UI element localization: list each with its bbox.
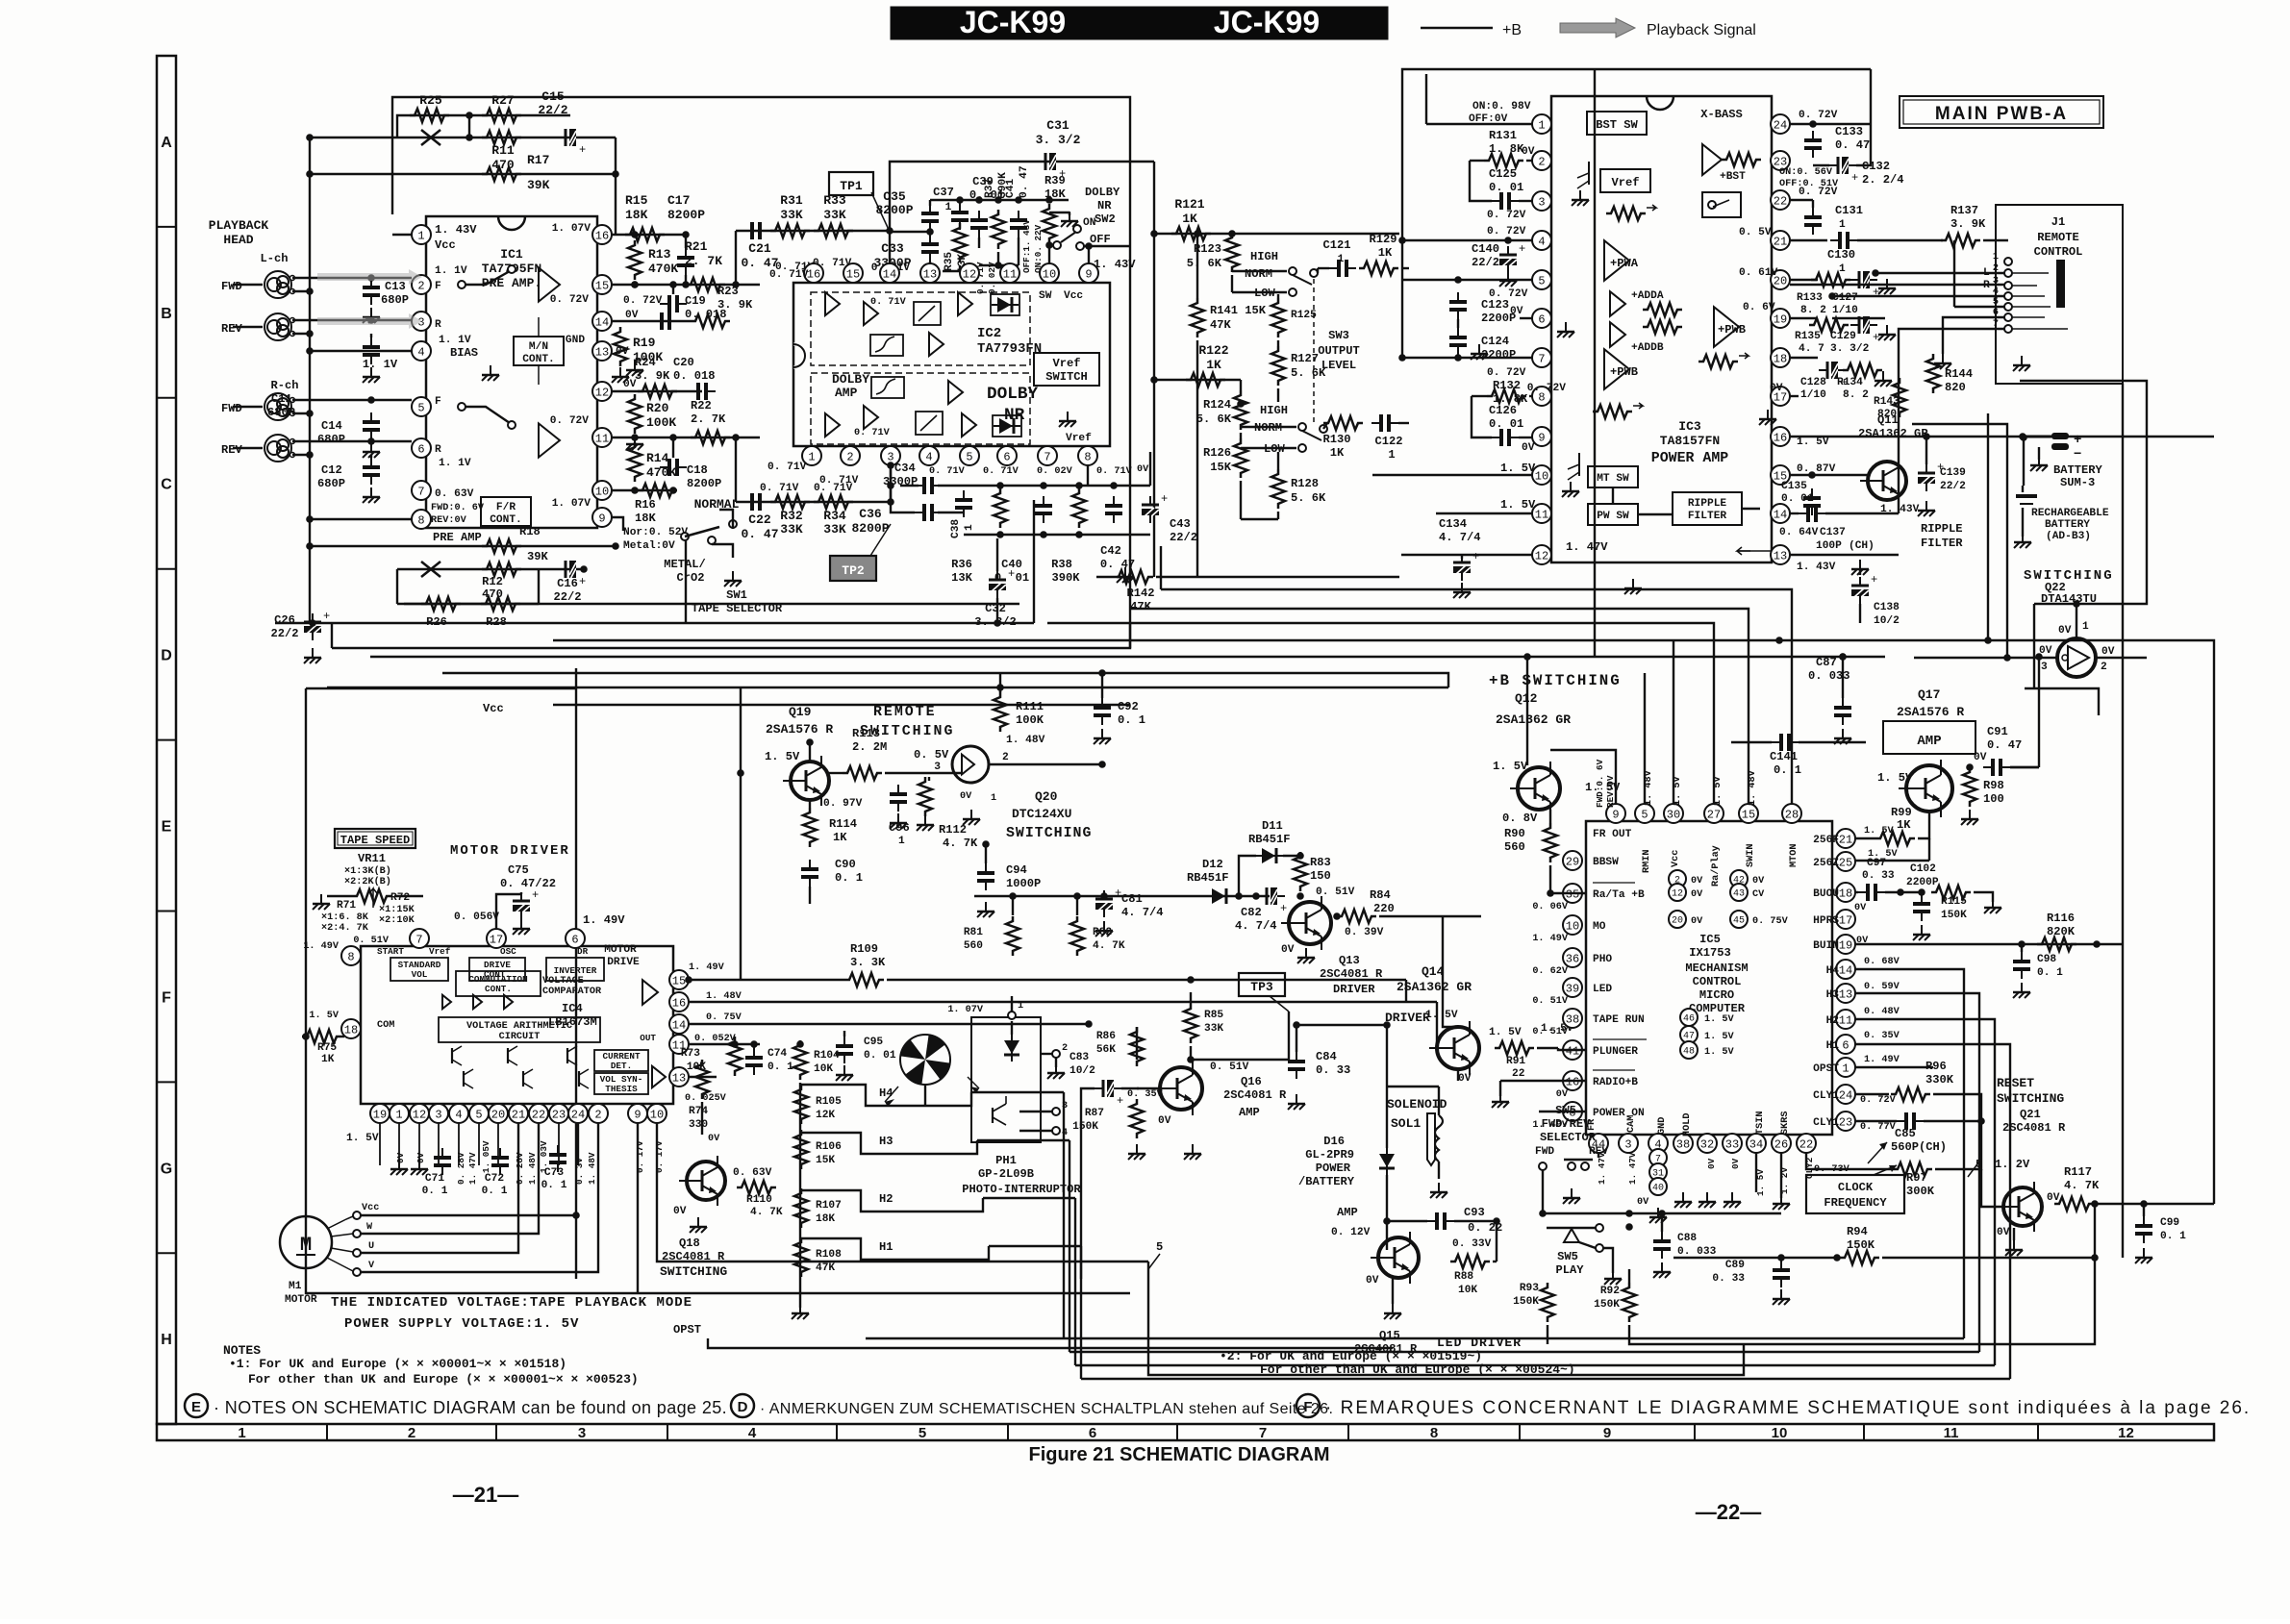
svg-text:1: 1 — [1388, 448, 1395, 462]
svg-text:B: B — [161, 306, 172, 322]
pin 3 IC2 bottom — [881, 446, 900, 465]
svg-text:11: 11 — [1003, 267, 1017, 281]
capacitor C88 0.033 — [1653, 1210, 1717, 1278]
wire c87 bus — [1839, 653, 1847, 661]
pin 2 IC2 bottom — [841, 446, 860, 465]
variable resistor VR11 — [327, 888, 423, 908]
capacitor C74 0.1 — [745, 1040, 793, 1075]
svg-text:R37: R37 — [984, 179, 995, 198]
capacitor C91 0.47 — [1983, 725, 2039, 776]
resistor R81 560 vert — [964, 892, 1019, 956]
svg-text:20: 20 — [1672, 916, 1683, 927]
svg-text:GL-2PR9: GL-2PR9 — [1305, 1148, 1354, 1162]
wire d11 right — [1299, 852, 1301, 856]
label volt 35 — [1532, 902, 1569, 912]
svg-text:+: + — [579, 575, 586, 588]
label 0V q21 — [1997, 1227, 2023, 1256]
svg-text:0. 33: 0. 33 — [1862, 870, 1895, 882]
svg-text:C127: C127 — [1832, 292, 1858, 304]
svg-text:1. 48V: 1. 48V — [527, 1152, 538, 1185]
frame row letter E — [162, 819, 172, 836]
ground ic2 — [1059, 412, 1076, 427]
svg-text:1. 8K: 1. 8K — [1489, 142, 1524, 156]
pin 18 IC4 — [309, 1011, 361, 1038]
svg-text:CIRCUIT: CIRCUIT — [499, 1032, 541, 1042]
wire p12 row — [612, 390, 702, 392]
svg-text:R73: R73 — [681, 1048, 700, 1060]
svg-text:CrO2: CrO2 — [676, 571, 704, 585]
frame col number 12 — [2118, 1425, 2134, 1441]
wire j1 link3 — [1832, 317, 1885, 319]
svg-text:C88: C88 — [1677, 1233, 1697, 1244]
svg-text:0. 01: 0. 01 — [1489, 417, 1523, 431]
wire ic5 top riser 30 — [1673, 640, 1674, 804]
capacitor C42 0.47 vert — [1100, 496, 1135, 571]
svg-text:0V: 0V — [673, 1206, 687, 1217]
svg-text:R13: R13 — [648, 247, 671, 262]
op-amp IC1 box — [426, 216, 597, 528]
svg-text:0. 64V: 0. 64V — [1779, 527, 1819, 538]
wire j1 gnd — [1934, 317, 2004, 369]
label START Vref OSC DR — [377, 946, 589, 957]
svg-text:H4: H4 — [1826, 965, 1840, 977]
svg-text:150K: 150K — [1513, 1296, 1539, 1308]
svg-text:0. 5V: 0. 5V — [1739, 227, 1772, 238]
resistor fb2 — [1699, 353, 1749, 368]
IC2 box — [793, 283, 1110, 446]
capacitor C31 3.3/2 — [1036, 118, 1081, 181]
svg-text:R106: R106 — [816, 1141, 842, 1153]
svg-text:0V: 0V — [395, 1152, 406, 1163]
svg-text:0. 71V: 0. 71V — [769, 269, 809, 281]
svg-text:8200P: 8200P — [851, 521, 889, 536]
svg-text:0. 48V: 0. 48V — [1864, 1007, 1900, 1017]
svg-text:100: 100 — [1983, 792, 2004, 806]
svg-text:JC-K99: JC-K99 — [1214, 5, 1320, 39]
svg-text:1. 5V: 1. 5V — [1704, 1032, 1734, 1042]
label NOTES — [223, 1343, 261, 1358]
svg-text:33K: 33K — [823, 208, 846, 222]
circle D note — [731, 1394, 754, 1417]
svg-text:F: F — [435, 396, 441, 408]
pin 38 IC5 bottom — [1673, 1134, 1693, 1153]
rechargeable battery sym — [2014, 486, 2037, 548]
svg-text:0V: 0V — [1706, 1158, 1717, 1169]
diode D12 RB451F — [1187, 858, 1233, 904]
svg-text:0. 72V: 0. 72V — [623, 295, 663, 307]
svg-text:1. 2V: 1. 2V — [1995, 1158, 2030, 1171]
svg-text:0. 61V: 0. 61V — [1739, 267, 1778, 279]
svg-text:3. 9K: 3. 9K — [1950, 217, 1986, 231]
svg-text:CLOCK: CLOCK — [1838, 1181, 1874, 1194]
capacitor C14 680P — [317, 396, 380, 458]
frame row tick — [157, 911, 176, 912]
svg-text:12: 12 — [2118, 1425, 2134, 1441]
svg-text:9: 9 — [634, 1108, 641, 1121]
svg-text:20: 20 — [491, 1108, 505, 1121]
capacitor C134 4.7/4 — [1439, 517, 1481, 598]
svg-text:For other than UK and Europe (: For other than UK and Europe (× × ×00001… — [248, 1372, 639, 1387]
wire p1 lead — [1426, 74, 1532, 124]
svg-text:150K: 150K — [1847, 1238, 1875, 1252]
label 0.5V p21 — [1739, 227, 1827, 240]
wire motor box — [306, 688, 1130, 1293]
wire ic4 out net — [689, 1044, 760, 1077]
wire q14 down — [1457, 1069, 1459, 1081]
capacitor C39 0.01 — [969, 175, 1004, 248]
wire sw3a net — [0, 0, 1, 1]
resistor R33 33K — [814, 193, 853, 237]
op-amp d1 — [825, 292, 878, 325]
wire long h4 return — [971, 1091, 1064, 1093]
svg-text:C73: C73 — [544, 1167, 564, 1179]
svg-text:6: 6 — [1003, 450, 1010, 463]
wire q12 net — [1523, 653, 1531, 765]
capacitor C26 22/2 — [270, 610, 330, 663]
svg-text:MTON: MTON — [1789, 844, 1799, 867]
svg-text:BATTERY: BATTERY — [2045, 519, 2090, 531]
svg-text:0. 73V: 0. 73V — [1814, 1164, 1850, 1175]
J1 pin 6 — [1993, 308, 2012, 321]
wire right bus b — [1855, 860, 1929, 862]
svg-text:R141 15K: R141 15K — [1210, 304, 1267, 317]
label Q13 name — [1320, 954, 1383, 996]
svg-text:SUM-3: SUM-3 — [2060, 476, 2095, 489]
svg-text:10K: 10K — [1458, 1285, 1477, 1296]
svg-text:Ra/Ta +B: Ra/Ta +B — [1593, 889, 1645, 901]
wire preamp outer box top — [392, 97, 1130, 623]
svg-text:7: 7 — [415, 933, 422, 946]
resistor R116 820K — [2037, 912, 2076, 951]
svg-text:C82: C82 — [1241, 906, 1262, 919]
pin 15 IC3 right — [1771, 465, 1790, 485]
pin 39 IC5 left — [1563, 978, 1612, 997]
node R27-R11 — [466, 112, 473, 141]
label 0.61V p20 — [1739, 267, 1818, 280]
svg-text:1: 1 — [1538, 118, 1545, 132]
svg-text:1: 1 — [808, 450, 815, 463]
pin 14 IC2 top — [880, 263, 899, 283]
label 1.5V ic4 — [346, 1133, 379, 1144]
svg-text:15: 15 — [672, 974, 686, 987]
svg-text:1: 1 — [898, 836, 905, 847]
node R17 right — [612, 170, 619, 178]
svg-text:R92: R92 — [1600, 1286, 1620, 1297]
svg-text:0V: 0V — [1458, 1073, 1472, 1085]
op-amp IC4 out — [642, 980, 658, 1005]
label X-BASS — [1700, 108, 1743, 121]
svg-text:PLUNGER: PLUNGER — [1593, 1046, 1638, 1058]
svg-text:C15: C15 — [541, 89, 565, 104]
capacitor C13 680P — [363, 274, 409, 323]
svg-text:JC-K99: JC-K99 — [960, 5, 1066, 39]
svg-text:HPRS: HPRS — [1813, 915, 1839, 927]
svg-text:TP1: TP1 — [840, 179, 863, 193]
resistor R113 2.2M — [829, 727, 962, 780]
label volt 16 — [1556, 1089, 1569, 1100]
svg-text:Vcc: Vcc — [435, 238, 456, 252]
svg-text:0V: 0V — [2058, 625, 2072, 637]
label 0.71V a — [775, 258, 852, 273]
frame col tick — [1176, 1424, 1178, 1440]
vlabel 0.71V 0.02V — [975, 262, 997, 294]
wire r113 junctions — [737, 769, 744, 777]
label Q20 DTC124XU — [1006, 789, 1092, 841]
pin 23 IC4 bottom — [549, 1104, 568, 1123]
svg-text:R38: R38 — [1051, 558, 1072, 571]
svg-text:C84: C84 — [1316, 1050, 1337, 1063]
capacitor C36 8200P — [851, 482, 942, 536]
label 0V q14 — [1458, 1073, 1472, 1085]
svg-text:18K: 18K — [1044, 187, 1067, 201]
svg-text:+: + — [1161, 492, 1168, 506]
wire bus1 — [553, 413, 1988, 644]
svg-text:9: 9 — [598, 512, 605, 525]
wire j1 link4 — [1899, 329, 2004, 513]
svg-text:19: 19 — [1774, 312, 1787, 326]
pin 24 IC5 right — [1813, 1085, 1855, 1104]
wire long h3 return — [977, 1139, 1070, 1141]
label SOLENOID SOL1 — [1387, 1097, 1447, 1131]
wire q12 down — [1550, 892, 1586, 894]
svg-text:1. 5V: 1. 5V — [1500, 462, 1536, 475]
svg-text:5: 5 — [475, 1108, 482, 1121]
wire p4 lead — [1402, 237, 1532, 244]
label Vcc motor — [483, 702, 504, 715]
label R pin6 — [435, 444, 471, 469]
resistor R132 — [1472, 389, 1532, 403]
svg-text:W: W — [366, 1222, 373, 1233]
svg-text:38: 38 — [1566, 1012, 1579, 1026]
resistor R18 39K — [306, 525, 616, 563]
capacitor C87 0.033 — [1808, 653, 1851, 744]
svg-text:Q11: Q11 — [1877, 413, 1899, 427]
pin 10 IC1 right — [592, 481, 612, 500]
svg-text:0. 8V: 0. 8V — [1502, 812, 1538, 825]
wire bbsw link — [1928, 838, 1930, 861]
capacitor C98 0.1 — [2013, 944, 2063, 998]
svg-text:28: 28 — [1785, 808, 1799, 821]
svg-text:0V: 0V — [1366, 1275, 1379, 1287]
pin 3 IC1 — [412, 312, 431, 331]
svg-text:560: 560 — [1504, 840, 1525, 854]
label 1.5V q14a — [1425, 1010, 1458, 1021]
svg-text:29: 29 — [1566, 855, 1579, 868]
wire bot return3 — [1075, 1364, 1995, 1366]
wire e row link — [685, 976, 692, 984]
svg-text:9: 9 — [1612, 808, 1619, 821]
pin 9 IC3 left — [1532, 427, 1551, 446]
svg-text:18: 18 — [1774, 352, 1787, 365]
svg-text:C135: C135 — [1781, 481, 1807, 492]
wire h right col1 — [1080, 1246, 1082, 1379]
frame col number 8 — [1430, 1425, 1438, 1441]
svg-text:0. 39V: 0. 39V — [1345, 927, 1384, 938]
frame row letter G — [161, 1161, 172, 1177]
svg-text:×1:15K: ×1:15K — [379, 905, 415, 915]
label BATTERY SUM-3 — [2053, 463, 2103, 489]
pin 4 IC2 bottom — [919, 446, 939, 465]
border frame bottom strip — [157, 1424, 2214, 1440]
svg-text:1. 1V: 1. 1V — [435, 265, 467, 277]
svg-text:R35: R35 — [944, 252, 955, 271]
frame row letter F — [162, 989, 171, 1006]
wire L-FWD to pin2 — [292, 278, 412, 295]
svg-text:—21—: —21— — [453, 1483, 518, 1507]
wire p5 lead — [1401, 276, 1532, 284]
svg-text:C34: C34 — [894, 462, 916, 475]
svg-text:0. 71V: 0. 71V — [819, 475, 859, 487]
svg-text:DOLBY: DOLBY — [832, 372, 869, 387]
pin 20 IC3 right — [1771, 270, 1790, 289]
label HIGH NORM LOW 2 — [1254, 404, 1288, 456]
svg-text:M/N: M/N — [529, 341, 548, 353]
pin 18 IC5 right — [1813, 883, 1855, 902]
label 0V p13 — [616, 346, 643, 376]
svg-text:R: R — [435, 444, 441, 456]
frame col number 3 — [578, 1425, 586, 1441]
resistor R111 100K vert — [994, 684, 1044, 732]
svg-text:R116: R116 — [2047, 912, 2075, 925]
svg-text:18: 18 — [344, 1023, 358, 1037]
box Vref SWITCH — [1034, 353, 1099, 386]
svg-text:0V: 0V — [2101, 646, 2115, 658]
svg-text:1: 1 — [1018, 1001, 1023, 1012]
svg-text:8: 8 — [347, 950, 354, 963]
label 1.5V q14c — [1541, 1023, 1573, 1035]
svg-text:C26: C26 — [274, 613, 295, 627]
svg-text:0. 1: 0. 1 — [541, 1180, 567, 1191]
label 0.71V b — [760, 483, 853, 494]
capacitor C85 560P — [1891, 1112, 1985, 1154]
wire mn arrows — [538, 317, 540, 385]
svg-text:10: 10 — [1043, 267, 1056, 281]
svg-text:VR11: VR11 — [358, 852, 386, 865]
svg-text:THESIS: THESIS — [605, 1084, 638, 1094]
svg-text:0. 17V: 0. 17V — [654, 1140, 665, 1173]
svg-text:3: 3 — [934, 762, 941, 773]
svg-text:14: 14 — [595, 315, 609, 329]
svg-text:1: 1 — [417, 229, 424, 242]
op-amp d3 — [825, 406, 878, 437]
svg-text:0. 72V: 0. 72V — [1799, 187, 1838, 198]
frame row letter D — [161, 648, 172, 664]
capacitor C122 1 — [1371, 414, 1409, 462]
label SW3 OUTPUT LEVEL — [1318, 329, 1360, 372]
svg-text:C20: C20 — [673, 356, 694, 369]
svg-text:0. 01: 0. 01 — [864, 1050, 896, 1062]
svg-text:2: 2 — [1538, 155, 1545, 168]
svg-text:TAPE RUN: TAPE RUN — [1593, 1014, 1645, 1026]
label volt 39 — [1532, 996, 1569, 1007]
wire p6 lead — [1510, 306, 1574, 337]
resistor R121 1K — [1171, 197, 1211, 240]
svg-text:F/R: F/R — [496, 502, 516, 513]
capacitor C92 0.1 — [1094, 669, 1145, 744]
svg-text:2. 7K: 2. 7K — [685, 254, 722, 268]
label volt 8 — [1532, 1120, 1569, 1131]
svg-text:1. 47V: 1. 47V — [467, 1152, 478, 1185]
label note2b — [1260, 1362, 1575, 1377]
J1 pin 5 — [1993, 297, 2012, 311]
frame row letter A — [161, 135, 172, 151]
pin 18 IC3 right — [1771, 348, 1790, 367]
svg-text:33K: 33K — [780, 522, 803, 537]
svg-text:18K: 18K — [635, 512, 657, 525]
svg-text:C133: C133 — [1835, 125, 1863, 138]
svg-text:C125: C125 — [1489, 167, 1517, 181]
svg-text:2: 2 — [417, 279, 424, 292]
wire q22 feed — [2020, 381, 2147, 715]
svg-text:D: D — [738, 1399, 748, 1415]
IC5 box — [1586, 821, 1832, 1135]
svg-text:21: 21 — [512, 1108, 525, 1121]
wire left riser 770 — [740, 687, 742, 980]
wire cap bus bottom — [964, 482, 1150, 538]
svg-text:13: 13 — [923, 267, 937, 281]
svg-text:0. 06V: 0. 06V — [1532, 902, 1569, 912]
resistor R26 — [421, 597, 461, 629]
op-amp U1a — [539, 267, 560, 301]
svg-text:R99: R99 — [1891, 806, 1912, 819]
svg-text:C14: C14 — [321, 419, 342, 433]
ground j1 area — [2013, 356, 2030, 371]
pins 7 31 40 — [1649, 1149, 1667, 1195]
svg-text:1. 5V: 1. 5V — [1704, 1014, 1734, 1025]
PH1 pin2 — [1041, 1043, 1068, 1079]
pin 1 IC2 bottom — [802, 446, 821, 465]
J1 pin 4 — [1993, 287, 2012, 300]
frame col tick — [1347, 1424, 1349, 1440]
wire q22 row — [1912, 424, 2147, 662]
svg-text:1/10: 1/10 — [1800, 389, 1826, 401]
svg-text:3: 3 — [435, 1108, 441, 1121]
svg-text:R113: R113 — [852, 727, 880, 740]
svg-text:0. 1: 0. 1 — [422, 1186, 448, 1197]
label 0V p9 — [1522, 442, 1535, 454]
op-amp +ADDA — [1610, 290, 1682, 316]
ground SW1 — [724, 571, 742, 587]
label +B SWITCHING — [1489, 672, 1622, 689]
svg-text:R32: R32 — [780, 509, 803, 523]
svg-text:C87: C87 — [1816, 656, 1837, 669]
svg-text:0V: 0V — [1556, 1089, 1569, 1100]
svg-text:5. 6K: 5. 6K — [1291, 491, 1326, 505]
svg-text:3: 3 — [1624, 1137, 1631, 1151]
label MAIN PWB-A — [1935, 104, 2068, 124]
svg-text:41: 41 — [1566, 1044, 1579, 1058]
svg-text:C11: C11 — [271, 392, 292, 406]
svg-text:8. 2: 8. 2 — [1800, 305, 1826, 316]
pin 33 IC5 bottom — [1723, 1134, 1742, 1153]
wire L-REV to pin3 — [292, 320, 412, 337]
label 1.5V q17 — [1877, 771, 1913, 785]
label PH1 GP-2L09B — [962, 1154, 1081, 1196]
wire motor v — [361, 1123, 598, 1272]
capacitor C21 0.47 — [741, 222, 778, 270]
svg-text:+: + — [579, 143, 586, 157]
wire preamp outer box bottom — [332, 623, 1130, 648]
wire q19 emit — [809, 742, 811, 762]
label 0V q17 — [1974, 752, 1987, 763]
label 1.43V sw2 — [1094, 258, 1136, 271]
wire sw3b net — [0, 0, 1, 1]
label 1.48V q20 — [1006, 735, 1045, 746]
pin 11 IC5 right — [1826, 1010, 1855, 1029]
svg-text:1. 5V: 1. 5V — [1704, 1047, 1734, 1058]
capacitor C89 0.33 — [1712, 1254, 1790, 1305]
svg-text:39K: 39K — [527, 550, 549, 563]
